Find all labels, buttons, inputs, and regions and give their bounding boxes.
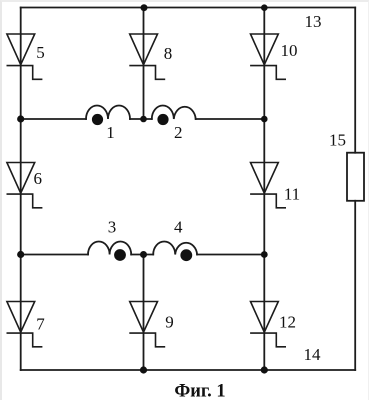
svg-text:10: 10 <box>281 41 298 60</box>
svg-text:9: 9 <box>165 313 174 332</box>
svg-text:1: 1 <box>106 123 115 142</box>
svg-text:13: 13 <box>305 12 322 31</box>
svg-text:8: 8 <box>164 44 173 63</box>
svg-text:Фиг. 1: Фиг. 1 <box>174 382 225 400</box>
svg-text:11: 11 <box>284 185 300 204</box>
svg-text:14: 14 <box>304 345 322 364</box>
svg-text:3: 3 <box>108 218 117 237</box>
svg-text:5: 5 <box>36 43 45 62</box>
svg-text:4: 4 <box>174 218 183 237</box>
svg-text:12: 12 <box>279 313 296 332</box>
svg-text:2: 2 <box>174 123 183 142</box>
svg-text:7: 7 <box>36 315 45 334</box>
svg-text:6: 6 <box>33 169 42 188</box>
svg-text:15: 15 <box>329 131 346 150</box>
